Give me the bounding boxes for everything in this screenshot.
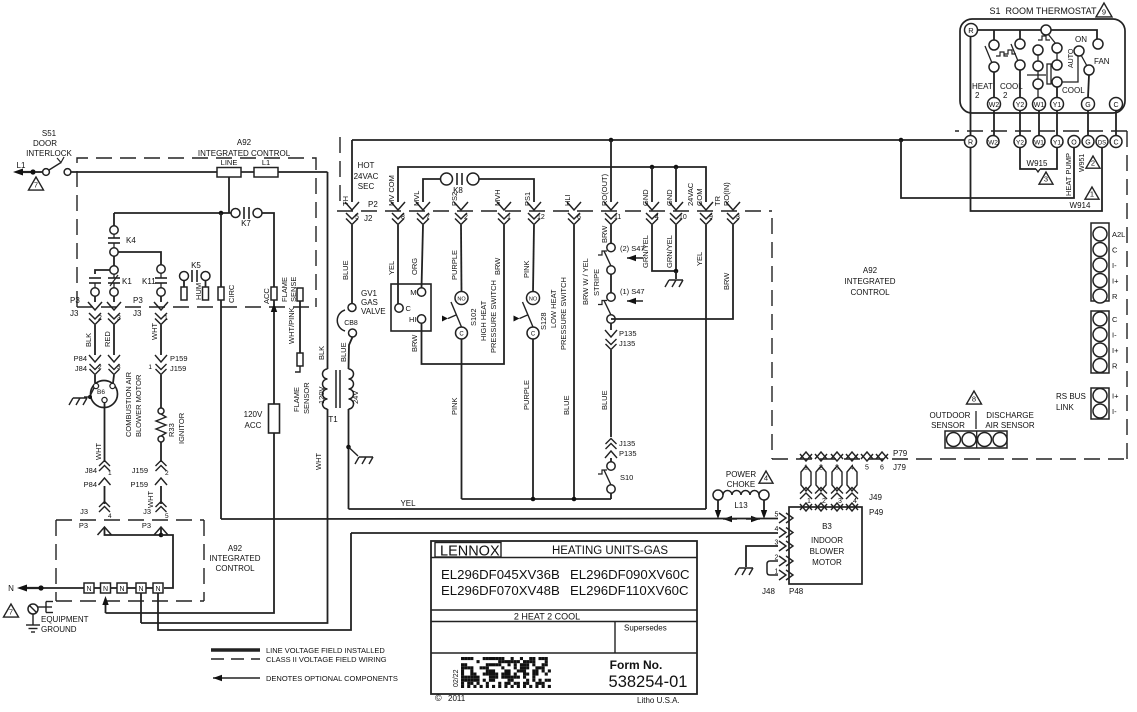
svg-text:BLOWER: BLOWER <box>810 547 845 556</box>
svg-text:P135: P135 <box>619 329 637 338</box>
svg-text:P3: P3 <box>79 521 88 530</box>
svg-text:BRW: BRW <box>493 257 502 275</box>
connector labels P3 J3 (right) <box>133 296 143 318</box>
legend optional components <box>213 674 398 683</box>
svg-text:R33: R33 <box>167 423 176 437</box>
svg-text:1: 1 <box>148 364 152 371</box>
wire R bus drop to heat2 <box>993 30 995 40</box>
wire S102 C PINK down <box>450 339 462 499</box>
svg-text:EL296DF045XV36B: EL296DF045XV36B <box>441 567 560 582</box>
relay contact K8 <box>423 173 534 202</box>
svg-text:M: M <box>410 288 416 297</box>
svg-text:S10: S10 <box>620 473 633 482</box>
unit terminal Y2 <box>1014 136 1026 148</box>
connector J159/P159 (bottom) <box>130 461 169 490</box>
junction CIRC tap <box>219 211 224 216</box>
label A92 INTEGRATED CONTROL (top-left) <box>198 138 291 158</box>
wire TH BLUE to CB8 <box>341 225 352 303</box>
J2/P2 pin 10 GND <box>665 189 687 225</box>
A92 integrated control dashed outline (right) <box>337 131 1127 459</box>
svg-text:J79: J79 <box>893 463 906 472</box>
svg-text:I+: I+ <box>1112 277 1119 286</box>
unit terminal W1 <box>1033 136 1045 148</box>
svg-text:PRESSURE SWITCH: PRESSURE SWITCH <box>559 277 568 350</box>
svg-text:Form No.: Form No. <box>610 658 663 672</box>
svg-text:Y1: Y1 <box>1053 140 1061 147</box>
A92 integrated control dashed outline (bottom-left) <box>56 520 204 601</box>
connector labels P2 J2 <box>364 200 378 223</box>
svg-text:INTEGRATED: INTEGRATED <box>845 277 896 286</box>
svg-text:TH: TH <box>341 196 350 206</box>
label POWER CHOKE <box>726 470 756 489</box>
svg-text:STRIPE: STRIPE <box>592 269 601 296</box>
wire to Y1 <box>1056 87 1058 98</box>
CIRC accessory terminal <box>218 213 236 303</box>
sensor terminal block <box>945 431 1007 448</box>
row divider <box>431 621 697 623</box>
label Form No. <box>610 658 663 672</box>
warning triangle 9 <box>1096 3 1112 17</box>
svg-text:MOTOR: MOTOR <box>812 558 842 567</box>
svg-text:O: O <box>1071 140 1077 147</box>
svg-text:PURPLE: PURPLE <box>450 250 459 280</box>
label HEAT 2 <box>972 82 993 100</box>
svg-text:LINE VOLTAGE FIELD INSTALLED: LINE VOLTAGE FIELD INSTALLED <box>266 646 385 655</box>
svg-text:POWER: POWER <box>726 470 756 479</box>
transformer T1 primary 120V <box>317 172 328 409</box>
svg-text:A2L: A2L <box>1112 230 1125 239</box>
svg-text:J159: J159 <box>132 466 148 475</box>
L1 field supply arrow <box>13 169 33 176</box>
connector J3/P3 pin 5 (bottom) <box>142 502 169 536</box>
label COOL 2 <box>1000 82 1023 100</box>
svg-text:24VAC: 24VAC <box>686 182 695 206</box>
thermostat field wire <box>1056 111 1058 136</box>
label HOT 24VAC SEC <box>354 161 379 191</box>
label 2 HEAT 2 COOL <box>514 612 580 622</box>
ACC 120V load <box>244 300 280 433</box>
connector P135/J135 (top) <box>605 323 637 349</box>
svg-text:2: 2 <box>98 315 102 322</box>
barcode <box>461 657 551 688</box>
wire BLK to B6 <box>94 375 96 383</box>
svg-text:W1: W1 <box>1034 140 1044 147</box>
thermostat terminal G <box>1082 98 1095 111</box>
svg-text:P135: P135 <box>619 449 637 458</box>
svg-text:TR: TR <box>713 195 722 206</box>
svg-text:Y1: Y1 <box>1053 102 1062 109</box>
form number 538254-01 <box>609 673 688 691</box>
label A92 INTEGRATED CONTROL (bottom) <box>210 544 261 573</box>
label FAN <box>1094 57 1110 66</box>
junction secondary ground tap <box>346 445 358 456</box>
main 24V hot wire TH to R <box>352 139 965 141</box>
svg-text:P79: P79 <box>893 449 908 458</box>
svg-text:2: 2 <box>1091 159 1095 168</box>
warning triangle 1 <box>1085 187 1099 199</box>
svg-text:T1: T1 <box>328 415 338 424</box>
connector P84/J84 (top) <box>74 354 121 375</box>
svg-text:(1) S47: (1) S47 <box>620 287 645 296</box>
svg-text:BRW W / YEL: BRW W / YEL <box>581 258 590 305</box>
svg-text:2: 2 <box>464 214 468 221</box>
ground at GND pins <box>665 271 683 287</box>
svg-text:J3: J3 <box>70 309 79 318</box>
svg-text:C: C <box>1112 246 1118 255</box>
title HEATING UNITS-GAS <box>552 545 668 557</box>
svg-text:EL296DF070XV48B: EL296DF070XV48B <box>441 583 560 598</box>
J2/P2 pin 3 TR RO(IN) <box>713 182 740 225</box>
J3/P3 pin 2 <box>88 296 102 324</box>
choke drop wires with optional arrows <box>715 500 767 519</box>
unit terminal O <box>1068 136 1080 148</box>
svg-text:YEL: YEL <box>387 261 396 275</box>
unit terminal Y1 <box>1051 136 1063 148</box>
svg-text:HEATING UNITS-GAS: HEATING UNITS-GAS <box>552 545 668 557</box>
svg-text:N: N <box>86 586 91 593</box>
J3/P3 pin 1 <box>154 296 168 324</box>
thermostat fan auto contact chain <box>1052 43 1062 87</box>
svg-text:DISCHARGE: DISCHARGE <box>986 411 1034 420</box>
warning triangle 3 <box>1039 172 1053 184</box>
thermostat heat-2 switch <box>985 40 1008 72</box>
svg-text:5: 5 <box>775 512 779 519</box>
svg-text:L1: L1 <box>17 161 26 170</box>
svg-text:K7: K7 <box>241 219 251 228</box>
svg-text:P2: P2 <box>368 200 378 209</box>
thermostat cool-2 switch <box>1004 39 1025 70</box>
wire W914 R to DS <box>971 148 1103 212</box>
legend class II voltage <box>211 655 387 664</box>
fuse LINE <box>217 158 241 177</box>
svg-text:SENSOR: SENSOR <box>302 382 311 414</box>
svg-text:CIRC: CIRC <box>227 284 236 303</box>
thermostat W1 contact column <box>1033 45 1043 98</box>
svg-text:FLAME: FLAME <box>292 387 301 412</box>
svg-text:J3: J3 <box>80 507 88 516</box>
svg-text:2: 2 <box>98 364 102 371</box>
combustion air blower motor B6 <box>91 381 118 408</box>
svg-text:K11: K11 <box>142 277 156 286</box>
svg-text:10: 10 <box>679 214 687 221</box>
svg-text:J49: J49 <box>869 493 882 502</box>
wire fan to G <box>1088 75 1089 98</box>
label 02/22 <box>453 669 460 687</box>
svg-text:INTEGRATED: INTEGRATED <box>210 554 261 563</box>
svg-text:B6: B6 <box>97 389 105 396</box>
relay contact K1 aux <box>89 270 110 296</box>
svg-text:P159: P159 <box>170 354 188 363</box>
J2/P2 pin 4 GND <box>641 189 659 225</box>
svg-text:W915: W915 <box>1027 159 1048 168</box>
wire LINE to L1 <box>241 171 254 173</box>
svg-text:BLOWER MOTOR: BLOWER MOTOR <box>134 374 143 437</box>
svg-text:MVL: MVL <box>412 191 421 206</box>
svg-text:SEC: SEC <box>358 182 375 191</box>
J2/P2 pin 5 TH <box>341 196 359 225</box>
svg-text:HIGH HEAT: HIGH HEAT <box>479 300 488 341</box>
thermostat field wire <box>1087 111 1089 136</box>
svg-text:LINK: LINK <box>1056 403 1074 412</box>
svg-text:CONTROL: CONTROL <box>215 564 255 573</box>
wire neutral node to N terminals <box>161 535 173 588</box>
svg-text:W2: W2 <box>988 140 998 147</box>
thermostat terminal Y1 <box>1051 98 1064 111</box>
label S102 HIGH HEAT PRESSURE SWITCH <box>469 280 498 353</box>
svg-text:P3: P3 <box>70 296 80 305</box>
svg-text:HLI: HLI <box>563 194 572 206</box>
relay contact K11 <box>142 265 167 296</box>
J2/P2 pin 2 PS2 <box>450 192 468 225</box>
svg-text:C: C <box>1112 315 1118 324</box>
svg-text:INTERLOCK: INTERLOCK <box>26 149 72 158</box>
label BLK (T1 primary) <box>317 346 326 360</box>
thermostat fan bus contact <box>1038 25 1056 44</box>
svg-text:3: 3 <box>736 214 740 221</box>
thermostat field wire <box>993 111 995 136</box>
copyright 2011 <box>435 693 466 703</box>
unit terminal R <box>965 136 977 148</box>
form row divider <box>431 652 697 654</box>
label Litho U.S.A. <box>637 696 680 705</box>
svg-text:4: 4 <box>764 474 768 483</box>
connector J48/P48 pins <box>762 512 804 597</box>
models divider <box>431 609 697 611</box>
svg-text:AIR SENSOR: AIR SENSOR <box>985 421 1035 430</box>
svg-text:DOOR: DOOR <box>33 139 57 148</box>
unit terminal G <box>1082 136 1094 148</box>
svg-text:J159: J159 <box>170 364 186 373</box>
unit terminal W2 <box>987 136 999 148</box>
J3/P3 pin 3 <box>107 296 121 324</box>
label S51 DOOR INTERLOCK <box>26 129 72 158</box>
svg-text:RED: RED <box>103 331 112 347</box>
svg-text:4: 4 <box>655 214 659 221</box>
J2/P2 pin 8 MV COM <box>387 175 405 224</box>
svg-text:GRN/YEL: GRN/YEL <box>665 235 674 268</box>
svg-text:2 HEAT 2 COOL: 2 HEAT 2 COOL <box>514 612 580 622</box>
jumper B3 pins 1-2 <box>767 561 778 575</box>
svg-text:BLK: BLK <box>84 333 93 347</box>
indoor blower motor B3 box <box>789 507 862 584</box>
svg-text:IGNITOR: IGNITOR <box>177 412 186 444</box>
svg-text:BLUE: BLUE <box>341 260 350 280</box>
connector J135/P135 (bottom) <box>605 439 637 459</box>
wire gas valve HI BRW to MVH <box>410 225 504 364</box>
connector P159/J159 (top) <box>148 354 187 375</box>
connector J49 <box>800 488 882 506</box>
wire B6 WHT return <box>94 403 105 462</box>
wire N to ACC neutral (optional) <box>102 433 274 613</box>
svg-text:K8: K8 <box>453 186 463 195</box>
ground at T1 secondary <box>355 457 373 464</box>
svg-text:P159: P159 <box>130 480 148 489</box>
wire J3-1 WHT <box>150 323 161 355</box>
svg-text:YEL: YEL <box>695 252 704 266</box>
circuit breaker CB8 <box>337 304 358 338</box>
svg-text:C: C <box>459 332 464 338</box>
svg-text:WHT/PINK: WHT/PINK <box>287 307 296 344</box>
svg-text:120V: 120V <box>317 386 326 404</box>
J2/P2 pin 11 RO(OUT) <box>600 173 621 224</box>
svg-text:5: 5 <box>355 214 359 221</box>
inductor L1 <box>254 158 278 177</box>
svg-text:A92: A92 <box>228 544 243 553</box>
power choke L13 <box>713 490 769 510</box>
svg-text:Y2: Y2 <box>1016 102 1025 109</box>
svg-text:24V: 24V <box>351 391 360 404</box>
wire J3-4 to neutral node <box>105 527 162 535</box>
title block outer box <box>431 541 697 694</box>
svg-text:HEAT: HEAT <box>972 82 993 91</box>
svg-text:W914: W914 <box>1070 201 1091 210</box>
svg-text:K5: K5 <box>191 261 201 270</box>
J2/P2 pin 7 MVL <box>412 191 430 225</box>
svg-text:8: 8 <box>401 214 405 221</box>
svg-text:I+: I+ <box>1112 392 1119 401</box>
FLAME SENSE terminal <box>280 277 303 302</box>
door interlock switch S51 <box>35 157 71 175</box>
label EQUIPMENT GROUND <box>41 615 89 634</box>
wire RED to B6 <box>113 375 114 383</box>
label T1 <box>328 415 338 424</box>
svg-text:C: C <box>1113 140 1118 147</box>
wire BLUE between J135 connectors <box>600 350 611 437</box>
warning triangle 2 <box>1086 156 1100 168</box>
svg-text:SENSOR: SENSOR <box>931 421 965 430</box>
label W914 <box>1070 201 1091 210</box>
thermostat R bus wire <box>978 30 1098 39</box>
wire S10 to pressure switch common line <box>610 493 612 499</box>
thermostat terminal W2 <box>988 98 1001 111</box>
svg-text:Supersedes: Supersedes <box>624 624 667 633</box>
svg-text:WHT: WHT <box>94 443 103 460</box>
wire CB8 to T1 secondary BLUE <box>339 337 353 369</box>
svg-text:BLUE: BLUE <box>562 395 571 415</box>
wire MVL ORG to gas valve M <box>410 225 423 288</box>
svg-text:4: 4 <box>775 526 779 533</box>
B6 ground tap <box>84 388 94 399</box>
wire T1 secondary to YEL line <box>348 409 350 509</box>
label BRW W / YEL STRIPE <box>581 258 601 305</box>
svg-text:EL296DF110XV60C: EL296DF110XV60C <box>570 583 689 598</box>
J2/P2 pin 1 MVH <box>493 189 511 224</box>
unit terminal DS <box>1096 136 1108 148</box>
svg-text:BRW: BRW <box>600 225 609 243</box>
terminal strip A2L block <box>1091 223 1125 303</box>
wire S47 to TR RO(IN) BRW <box>611 225 733 319</box>
svg-text:A92: A92 <box>863 266 878 275</box>
label OUTDOOR SENSOR <box>930 411 971 430</box>
thermostat terminal R <box>965 24 978 37</box>
svg-text:C: C <box>406 304 412 313</box>
svg-text:GV1: GV1 <box>361 289 378 298</box>
wire heat2 to W2 <box>993 72 995 98</box>
svg-text:W951: W951 <box>1079 154 1086 172</box>
svg-text:NO: NO <box>529 297 538 303</box>
svg-text:L13: L13 <box>734 501 748 510</box>
thermostat field wire <box>1115 111 1117 136</box>
wire T1 primary WHT to neutral <box>141 409 328 623</box>
HUM accessory terminals <box>181 281 209 301</box>
svg-text:CHOKE: CHOKE <box>727 480 755 489</box>
svg-text:CLASS II VOLTAGE FIELD WIRING: CLASS II VOLTAGE FIELD WIRING <box>266 655 387 664</box>
svg-text:GRN/YEL: GRN/YEL <box>641 235 650 268</box>
wire LINE box to K7 node <box>228 177 230 213</box>
limit switch (2) S47 <box>598 243 645 274</box>
svg-text:CB8: CB8 <box>344 320 358 327</box>
svg-text:P84: P84 <box>84 480 97 489</box>
junction at RO(OUT) riser <box>609 138 614 143</box>
svg-text:©: © <box>435 693 442 703</box>
svg-text:EQUIPMENT: EQUIPMENT <box>41 615 89 624</box>
svg-text:COOL: COOL <box>1062 86 1085 95</box>
svg-text:I-: I- <box>1112 261 1117 270</box>
svg-text:FLAME: FLAME <box>280 277 289 302</box>
svg-text:PINK: PINK <box>522 260 531 278</box>
svg-text:J3: J3 <box>143 507 151 516</box>
svg-text:N: N <box>119 586 124 593</box>
wire K4 to K1/K11 <box>114 252 161 266</box>
svg-text:C: C <box>1113 102 1118 109</box>
svg-text:ORG: ORG <box>410 258 419 275</box>
label COOL (fan circuit) <box>1062 86 1085 95</box>
thermostat field wire <box>1019 111 1021 136</box>
label COMBUSTION AIR BLOWER MOTOR <box>124 371 143 437</box>
svg-text:2011: 2011 <box>448 694 466 703</box>
RS BUS LINK terminal block <box>1091 388 1119 419</box>
junction GND pin10 riser <box>674 165 679 202</box>
YEL 24V common wire <box>349 499 707 509</box>
svg-text:SENSE: SENSE <box>289 277 298 302</box>
svg-text:7: 7 <box>9 608 13 617</box>
connector P49 <box>800 503 884 517</box>
equipment ground symbol <box>26 602 53 633</box>
svg-text:ACC: ACC <box>262 288 271 304</box>
svg-text:INTEGRATED CONTROL: INTEGRATED CONTROL <box>198 149 291 158</box>
relay contact K1 <box>108 266 132 296</box>
svg-text:J48: J48 <box>762 587 775 596</box>
unit terminal C <box>1110 136 1122 148</box>
svg-text:C: C <box>531 332 536 338</box>
svg-text:120V: 120V <box>244 410 263 419</box>
wire cool link to auto <box>1062 56 1078 82</box>
svg-text:DS: DS <box>1098 141 1106 147</box>
label W915 <box>1027 159 1048 168</box>
pressure switch S102 <box>442 292 468 340</box>
wire TH riser to main line <box>351 140 353 202</box>
svg-text:N: N <box>8 584 14 593</box>
label A92 INTEGRATED CONTROL (right board) <box>845 266 896 297</box>
wire between S47 contacts <box>610 274 612 293</box>
K7 feed wire <box>114 212 231 214</box>
J2/P2 pin 6 HLI <box>563 194 581 224</box>
gas valve GV1 <box>391 284 431 331</box>
svg-text:W1: W1 <box>1034 102 1045 109</box>
optional arrows on blower line <box>723 516 760 522</box>
wire cool2 to Y2 <box>1019 70 1021 98</box>
svg-text:GND: GND <box>665 189 674 206</box>
label S128 LOW HEAT PRESSURE SWITCH <box>539 277 568 350</box>
svg-text:MV COM: MV COM <box>387 175 396 206</box>
svg-text:LOW HEAT: LOW HEAT <box>549 289 558 328</box>
svg-text:N: N <box>138 586 143 593</box>
thermostat S1 enclosure box <box>960 19 1125 113</box>
ground at B6 <box>69 398 87 405</box>
warning triangle 8 <box>967 391 982 404</box>
wire RO(OUT) riser <box>610 140 612 202</box>
label RS BUS LINK <box>1056 392 1086 412</box>
